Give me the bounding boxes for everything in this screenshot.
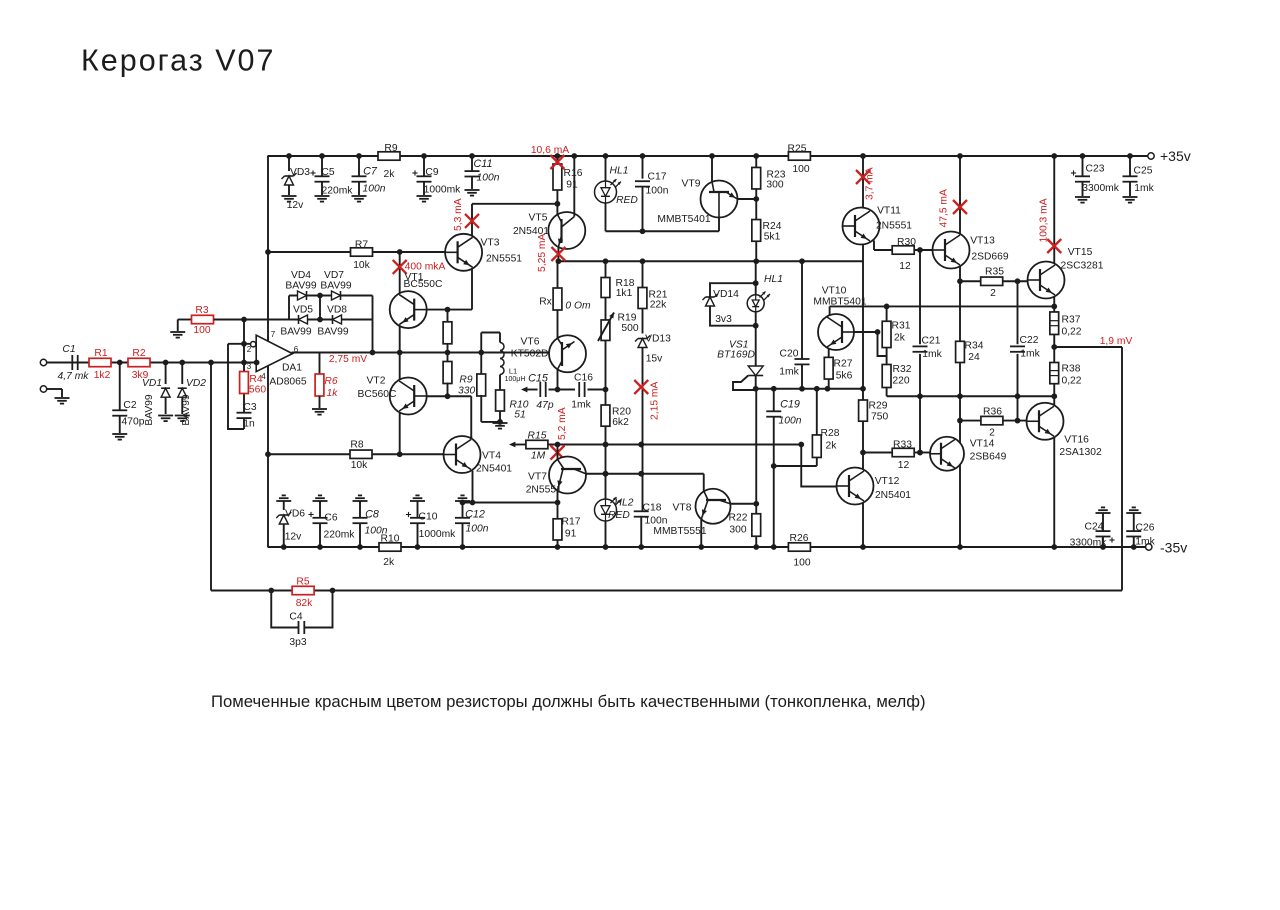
svg-text:C25: C25 xyxy=(1134,166,1153,177)
svg-text:R31: R31 xyxy=(892,321,911,332)
svg-text:R9: R9 xyxy=(384,143,397,154)
svg-text:91: 91 xyxy=(566,180,578,191)
svg-text:VT2: VT2 xyxy=(367,376,386,387)
svg-text:VT9: VT9 xyxy=(682,179,701,190)
svg-text:C23: C23 xyxy=(1086,164,1105,175)
svg-text:400 mkA: 400 mkA xyxy=(405,262,446,273)
svg-text:Помеченные красным цветом рези: Помеченные красным цветом резисторы долж… xyxy=(211,692,926,711)
svg-text:BC550C: BC550C xyxy=(404,279,443,290)
svg-text:C4: C4 xyxy=(289,612,302,623)
svg-text:220: 220 xyxy=(892,376,909,387)
svg-text:R9: R9 xyxy=(459,375,472,386)
svg-text:VT8: VT8 xyxy=(673,503,692,514)
svg-text:12: 12 xyxy=(899,261,911,272)
svg-text:100n: 100n xyxy=(646,186,669,197)
svg-text:2k: 2k xyxy=(384,169,396,180)
svg-text:2N5551: 2N5551 xyxy=(526,485,562,496)
svg-text:100n: 100n xyxy=(779,416,802,427)
svg-text:R22: R22 xyxy=(729,513,748,524)
svg-text:VT6: VT6 xyxy=(521,337,540,348)
svg-text:MMBT5401: MMBT5401 xyxy=(657,214,710,225)
svg-text:7: 7 xyxy=(271,330,276,339)
svg-text:100n: 100n xyxy=(477,173,500,184)
svg-text:DA1: DA1 xyxy=(282,363,302,374)
svg-text:2k: 2k xyxy=(383,557,395,568)
svg-text:R2: R2 xyxy=(132,348,145,359)
svg-text:KT502D: KT502D xyxy=(511,349,549,360)
svg-text:AD8065: AD8065 xyxy=(269,377,306,388)
svg-text:1mk: 1mk xyxy=(1135,537,1155,548)
svg-text:R36: R36 xyxy=(983,407,1002,418)
svg-text:R29: R29 xyxy=(869,401,888,412)
svg-text:300: 300 xyxy=(766,180,783,191)
svg-text:3,7 mA: 3,7 mA xyxy=(865,167,876,200)
svg-text:RED: RED xyxy=(608,510,630,521)
svg-text:R3: R3 xyxy=(195,305,208,316)
svg-text:10k: 10k xyxy=(351,460,368,471)
svg-text:HL1: HL1 xyxy=(764,274,783,285)
svg-text:C7: C7 xyxy=(363,166,378,178)
svg-text:2k: 2k xyxy=(894,333,906,344)
svg-text:470p: 470p xyxy=(122,417,145,428)
svg-text:VT4: VT4 xyxy=(482,451,501,462)
svg-text:R16: R16 xyxy=(564,168,583,179)
svg-text:2N5401: 2N5401 xyxy=(476,464,512,475)
svg-text:12: 12 xyxy=(898,460,910,471)
svg-text:100n: 100n xyxy=(363,184,386,195)
svg-text:1mk: 1mk xyxy=(1134,183,1154,194)
svg-text:1,9 mV: 1,9 mV xyxy=(1100,336,1133,347)
svg-text:4,7 mk: 4,7 mk xyxy=(58,371,90,382)
svg-text:VD5: VD5 xyxy=(293,305,313,316)
svg-text:C16: C16 xyxy=(574,373,593,384)
svg-text:C19: C19 xyxy=(780,399,800,411)
svg-text:R26: R26 xyxy=(790,533,809,544)
svg-text:2: 2 xyxy=(989,428,995,439)
svg-text:330: 330 xyxy=(458,386,475,397)
svg-text:1n: 1n xyxy=(243,419,255,430)
svg-text:BAV99: BAV99 xyxy=(317,327,349,338)
svg-text:Rx: Rx xyxy=(539,297,552,308)
svg-text:100n: 100n xyxy=(645,516,668,527)
svg-text:1mk: 1mk xyxy=(571,399,591,410)
svg-text:1mk: 1mk xyxy=(1020,349,1040,360)
svg-text:VD6: VD6 xyxy=(285,509,305,520)
svg-text:5k6: 5k6 xyxy=(836,371,853,382)
svg-text:C15: C15 xyxy=(528,373,549,385)
svg-text:VT3: VT3 xyxy=(481,238,500,249)
svg-text:220mk: 220mk xyxy=(322,186,354,197)
svg-text:C1: C1 xyxy=(62,344,75,355)
svg-text:R1: R1 xyxy=(94,348,107,359)
svg-text:R38: R38 xyxy=(1062,364,1081,375)
svg-text:1000mk: 1000mk xyxy=(424,185,461,196)
svg-text:BC560C: BC560C xyxy=(358,389,397,400)
svg-text:2,15 mA: 2,15 mA xyxy=(650,382,661,420)
svg-text:R15: R15 xyxy=(528,431,547,442)
svg-text:91: 91 xyxy=(565,529,577,540)
svg-text:R19: R19 xyxy=(618,313,637,324)
svg-text:300: 300 xyxy=(729,525,746,536)
svg-text:VD13: VD13 xyxy=(645,334,671,345)
svg-text:-35v: -35v xyxy=(1160,540,1187,556)
svg-text:2: 2 xyxy=(990,288,996,299)
svg-text:24: 24 xyxy=(968,352,980,363)
svg-text:R28: R28 xyxy=(821,428,840,439)
svg-text:R24: R24 xyxy=(763,221,782,232)
svg-text:BT169D: BT169D xyxy=(717,350,755,361)
svg-text:2: 2 xyxy=(247,345,252,354)
svg-text:750: 750 xyxy=(871,412,888,423)
svg-text:R17: R17 xyxy=(562,517,581,528)
svg-text:15v: 15v xyxy=(646,354,663,365)
svg-text:100: 100 xyxy=(193,325,210,336)
svg-text:6: 6 xyxy=(294,345,299,354)
svg-text:3: 3 xyxy=(247,362,252,371)
svg-text:VD7: VD7 xyxy=(324,270,344,281)
svg-text:C21: C21 xyxy=(922,336,941,347)
svg-text:C3: C3 xyxy=(243,402,256,413)
svg-text:12v: 12v xyxy=(285,532,302,543)
svg-text:VD8: VD8 xyxy=(327,305,347,316)
svg-text:VT14: VT14 xyxy=(970,439,995,450)
svg-text:51: 51 xyxy=(514,410,525,421)
svg-text:1mk: 1mk xyxy=(779,367,799,378)
svg-text:1k: 1k xyxy=(327,388,339,399)
svg-text:VD14: VD14 xyxy=(713,289,739,300)
svg-text:1000mk: 1000mk xyxy=(419,529,456,540)
svg-text:C22: C22 xyxy=(1020,335,1039,346)
svg-text:C6: C6 xyxy=(324,513,337,524)
svg-text:L1: L1 xyxy=(509,367,517,376)
svg-text:C9: C9 xyxy=(425,167,438,178)
svg-text:22k: 22k xyxy=(650,300,667,311)
svg-text:VT16: VT16 xyxy=(1064,435,1089,446)
svg-text:C24: C24 xyxy=(1085,522,1104,533)
svg-text:100: 100 xyxy=(793,558,810,569)
svg-text:100μH: 100μH xyxy=(505,376,526,383)
svg-text:2SD669: 2SD669 xyxy=(971,252,1008,263)
svg-text:12v: 12v xyxy=(287,200,304,211)
svg-text:5,2 mA: 5,2 mA xyxy=(557,407,568,440)
svg-text:C8: C8 xyxy=(365,509,379,521)
svg-text:VT7: VT7 xyxy=(528,472,547,483)
svg-text:3300mk: 3300mk xyxy=(1082,183,1119,194)
svg-text:6k2: 6k2 xyxy=(612,417,629,428)
svg-text:2N5401: 2N5401 xyxy=(875,490,911,501)
svg-text:5,3 mA: 5,3 mA xyxy=(453,198,464,231)
svg-text:R5: R5 xyxy=(296,577,309,588)
svg-text:2SB649: 2SB649 xyxy=(970,452,1007,463)
svg-text:R4: R4 xyxy=(249,374,262,385)
svg-text:BAV99: BAV99 xyxy=(285,281,317,292)
svg-text:VD1: VD1 xyxy=(142,378,162,389)
svg-text:C26: C26 xyxy=(1136,523,1155,534)
svg-text:0,22: 0,22 xyxy=(1061,327,1081,338)
svg-text:BAV99: BAV99 xyxy=(320,281,352,292)
svg-text:R35: R35 xyxy=(985,267,1004,278)
svg-text:RED: RED xyxy=(616,195,638,206)
svg-text:220mk: 220mk xyxy=(324,530,356,541)
svg-text:C10: C10 xyxy=(419,512,438,523)
svg-text:BAV99: BAV99 xyxy=(144,394,155,426)
svg-text:5k1: 5k1 xyxy=(764,232,781,243)
svg-text:R6: R6 xyxy=(324,376,337,387)
svg-text:C12: C12 xyxy=(465,509,485,521)
svg-text:10,6 mA: 10,6 mA xyxy=(531,145,569,156)
svg-text:2,75 mV: 2,75 mV xyxy=(329,354,367,365)
svg-text:BAV99: BAV99 xyxy=(181,394,192,426)
svg-text:R33: R33 xyxy=(893,440,912,451)
svg-text:R8: R8 xyxy=(350,440,363,451)
svg-text:2N5551: 2N5551 xyxy=(876,221,912,232)
svg-text:10k: 10k xyxy=(353,260,370,271)
svg-text:R32: R32 xyxy=(893,364,912,375)
svg-text:R30: R30 xyxy=(897,237,916,248)
svg-text:560: 560 xyxy=(249,385,266,396)
svg-text:BAV99: BAV99 xyxy=(280,327,312,338)
svg-text:1k2: 1k2 xyxy=(94,370,111,381)
svg-text:HL2: HL2 xyxy=(615,498,634,509)
svg-text:2k: 2k xyxy=(826,441,838,452)
svg-text:VT10: VT10 xyxy=(822,286,847,297)
svg-text:VD2: VD2 xyxy=(186,378,206,389)
svg-text:R10: R10 xyxy=(381,534,400,545)
svg-text:VT12: VT12 xyxy=(875,476,900,487)
svg-text:3300mk: 3300mk xyxy=(1070,538,1107,549)
svg-text:5,25 mA: 5,25 mA xyxy=(537,234,548,272)
svg-text:1M: 1M xyxy=(531,451,546,462)
svg-text:1mk: 1mk xyxy=(922,349,942,360)
svg-text:C2: C2 xyxy=(123,400,136,411)
svg-text:MMBT5401: MMBT5401 xyxy=(813,297,866,308)
svg-text:VD3: VD3 xyxy=(290,167,310,178)
svg-text:500: 500 xyxy=(621,323,638,334)
svg-text:Керогаз V07: Керогаз V07 xyxy=(81,44,275,78)
svg-text:C5: C5 xyxy=(321,167,334,178)
svg-text:47p: 47p xyxy=(536,400,553,411)
svg-text:HL1: HL1 xyxy=(610,166,629,177)
svg-text:0,22: 0,22 xyxy=(1061,376,1081,387)
svg-text:0 Om: 0 Om xyxy=(565,301,591,312)
svg-text:R20: R20 xyxy=(612,407,631,418)
svg-text:C17: C17 xyxy=(648,172,667,183)
svg-text:VT5: VT5 xyxy=(529,213,548,224)
svg-text:R27: R27 xyxy=(834,359,853,370)
svg-text:100n: 100n xyxy=(466,524,489,535)
svg-text:VT15: VT15 xyxy=(1068,247,1093,258)
svg-text:82k: 82k xyxy=(296,598,313,609)
svg-text:100,3 mA: 100,3 mA xyxy=(1038,198,1049,242)
svg-text:C11: C11 xyxy=(473,158,492,170)
svg-text:2SA1302: 2SA1302 xyxy=(1059,447,1102,458)
svg-text:VD4: VD4 xyxy=(291,270,311,281)
svg-text:C20: C20 xyxy=(780,349,799,360)
svg-text:R34: R34 xyxy=(965,341,984,352)
svg-text:MMBT5551: MMBT5551 xyxy=(653,526,706,537)
svg-text:3p3: 3p3 xyxy=(289,637,306,648)
svg-text:47,5 mA: 47,5 mA xyxy=(938,189,949,227)
svg-text:100: 100 xyxy=(792,164,809,175)
svg-text:VT13: VT13 xyxy=(970,236,995,247)
svg-text:R25: R25 xyxy=(788,144,807,155)
svg-text:R7: R7 xyxy=(355,240,368,251)
svg-text:R37: R37 xyxy=(1062,315,1081,326)
svg-text:C18: C18 xyxy=(643,503,662,514)
svg-text:+35v: +35v xyxy=(1160,148,1191,164)
svg-text:2N5551: 2N5551 xyxy=(486,254,522,265)
svg-text:1k1: 1k1 xyxy=(616,288,633,299)
svg-text:2SC3281: 2SC3281 xyxy=(1061,261,1104,272)
svg-text:3v3: 3v3 xyxy=(715,314,732,325)
svg-text:VT11: VT11 xyxy=(877,206,901,217)
